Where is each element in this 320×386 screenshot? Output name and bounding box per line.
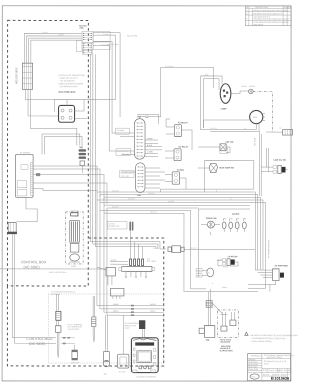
svg-text:CCC: CCC (251, 377, 256, 379)
svg-text:AND NOTE: AND NOTE (253, 23, 264, 26)
svg-text:NO 1 SW: NO 1 SW (121, 154, 129, 156)
svg-text:C GRN: C GRN (147, 151, 153, 153)
svg-text:B BLU: B BLU (147, 145, 153, 147)
svg-text:THE INSTALLATION MUST BE IN AC: THE INSTALLATION MUST BE IN ACCORDANCE W… (250, 334, 298, 337)
svg-text:AUTO BAT CHARGER: AUTO BAT CHARGER (136, 375, 156, 378)
svg-text:POWER TAP: POWER TAP (108, 225, 119, 228)
svg-text:(DC SIDE): (DC SIDE) (29, 342, 46, 346)
svg-text:18 GA W: 18 GA W (150, 211, 157, 214)
svg-text:DS7B: DS7B (71, 266, 77, 268)
svg-text:W/RED: W/RED (150, 304, 157, 306)
svg-text:DC SKT: DC SKT (119, 371, 126, 373)
svg-text:TO MAIN: TO MAIN (117, 129, 125, 132)
svg-text:L1 BLK: L1 BLK (42, 32, 48, 34)
svg-text:GAUGE: GAUGE (232, 213, 240, 216)
svg-text:FUSE: FUSE (125, 328, 131, 330)
svg-text:CONTROL MOD: CONTROL MOD (26, 337, 53, 341)
svg-text:ANT SW: ANT SW (225, 141, 233, 144)
svg-text:DWG NO: DWG NO (279, 370, 288, 372)
svg-text:1010626: 1010626 (274, 377, 289, 381)
svg-text:A RED: A RED (147, 137, 153, 140)
svg-text:REVISED PER ECO 10452 P-1 R 1: REVISED PER ECO 10452 P-1 R 1 (253, 13, 283, 15)
svg-text:ON PANEL: ON PANEL (51, 293, 60, 296)
svg-text:16 GA W: 16 GA W (128, 197, 135, 200)
svg-text:T AUX: T AUX (103, 33, 109, 36)
svg-text:WELDER SIDE: WELDER SIDE (15, 67, 18, 84)
svg-text:LOW OIL SW: LOW OIL SW (274, 160, 286, 162)
svg-text:W/BLK: W/BLK (150, 311, 156, 313)
svg-text:AC POWER MODULE: AC POWER MODULE (267, 239, 270, 258)
svg-text:APPROVALS: APPROVALS (251, 355, 263, 358)
svg-text:(LARGE SIDE): (LARGE SIDE) (220, 349, 233, 352)
svg-text:ELEC: ELEC (264, 364, 270, 366)
svg-text:18 GA W: 18 GA W (112, 189, 119, 192)
svg-text:BAT TERM: BAT TERM (147, 260, 156, 263)
svg-text:TIE TO GRN BKT: TIE TO GRN BKT (60, 81, 76, 83)
svg-text:SIZE: SIZE (263, 370, 268, 372)
svg-text:DESCRIPTION: DESCRIPTION (255, 7, 269, 9)
svg-text:LP SW: LP SW (241, 86, 247, 88)
svg-text:FAN PWR: FAN PWR (254, 137, 257, 146)
svg-text:W/BLK: W/BLK (223, 266, 229, 268)
svg-text:W/BLK: W/BLK (222, 287, 228, 289)
svg-text:PRODUCTION RELEASE PER ECO4321: PRODUCTION RELEASE PER ECO4321 (253, 9, 288, 12)
svg-text:10A FUSE: 10A FUSE (71, 361, 80, 364)
svg-text:CUSTOMER A BLKD: CUSTOMER A BLKD (60, 85, 78, 88)
svg-text:MTG TRML BOX: MTG TRML BOX (59, 92, 76, 94)
svg-text:LOCAL REGULATIONS: LOCAL REGULATIONS (251, 340, 272, 343)
svg-text:PC BOARD: PC BOARD (20, 151, 31, 154)
svg-text:STANDARD ELECTRICAL CODES AND: STANDARD ELECTRICAL CODES AND (251, 337, 286, 340)
svg-text:NOTE: SEE DETAIL A: NOTE: SEE DETAIL A (49, 271, 68, 274)
svg-text:HP SW: HP SW (249, 86, 255, 88)
svg-text:12V BATTERY: 12V BATTERY (68, 328, 81, 331)
svg-text:NO 2 SW: NO 2 SW (121, 176, 129, 178)
svg-text:COMP: COMP (221, 109, 228, 111)
svg-text:14 GA BLK: 14 GA BLK (165, 65, 174, 68)
svg-text:NOTE TO SPECIFICATIONS: NOTE TO SPECIFICATIONS (59, 82, 84, 85)
svg-text:16 GA B: 16 GA B (168, 200, 175, 203)
svg-text:SCALE: SCALE (263, 373, 270, 376)
svg-text:LOADING BOX: LOADING BOX (117, 150, 130, 153)
svg-text:QUAL ENG: QUAL ENG (248, 368, 258, 371)
svg-text:K1 RELAY: K1 RELAY (178, 121, 188, 124)
svg-text:J4: J4 (279, 128, 281, 130)
svg-text:AC PWR MOD: AC PWR MOD (274, 264, 288, 267)
svg-text:L2 RED: L2 RED (58, 34, 65, 36)
svg-text:18 GA B: 18 GA B (148, 192, 155, 195)
svg-text:SOLENOID: SOLENOID (220, 342, 231, 344)
svg-text:K3 REL: K3 REL (177, 170, 185, 172)
svg-text:W/BLK: W/BLK (113, 311, 119, 313)
svg-text:W/RED: W/RED (110, 260, 117, 262)
svg-text:TO AUX PNL: TO AUX PNL (127, 34, 138, 37)
svg-text:FAN: FAN (253, 116, 257, 119)
svg-text:18 GA G: 18 GA G (112, 205, 119, 208)
svg-text:CONTROL BOX: CONTROL BOX (21, 260, 47, 264)
svg-text:(AC SIDE): (AC SIDE) (23, 265, 39, 269)
svg-text:SHOW NO. 14 WITH: SHOW NO. 14 WITH (60, 78, 78, 80)
svg-text:TYPICAL PLOT CONNECTION: TYPICAL PLOT CONNECTION (58, 74, 85, 77)
svg-text:W/RED: W/RED (113, 304, 120, 306)
svg-text:PRESS SW: PRESS SW (206, 218, 217, 220)
svg-text:REVISED PER ECO 10652 WAS 1.5: REVISED PER ECO 10652 WAS 1.5 AMP (253, 18, 289, 21)
svg-text:HIGH TEMP SW: HIGH TEMP SW (219, 168, 234, 170)
svg-text:K2 RELAY: K2 RELAY (179, 146, 189, 149)
svg-text:LP PR SW: LP PR SW (228, 256, 238, 258)
svg-text:TB1: TB1 (79, 147, 83, 149)
svg-text:SANTA FE SPGS: SANTA FE SPGS (267, 356, 283, 359)
svg-text:CIRCUIT BKR: CIRCUIT BKR (107, 44, 119, 46)
